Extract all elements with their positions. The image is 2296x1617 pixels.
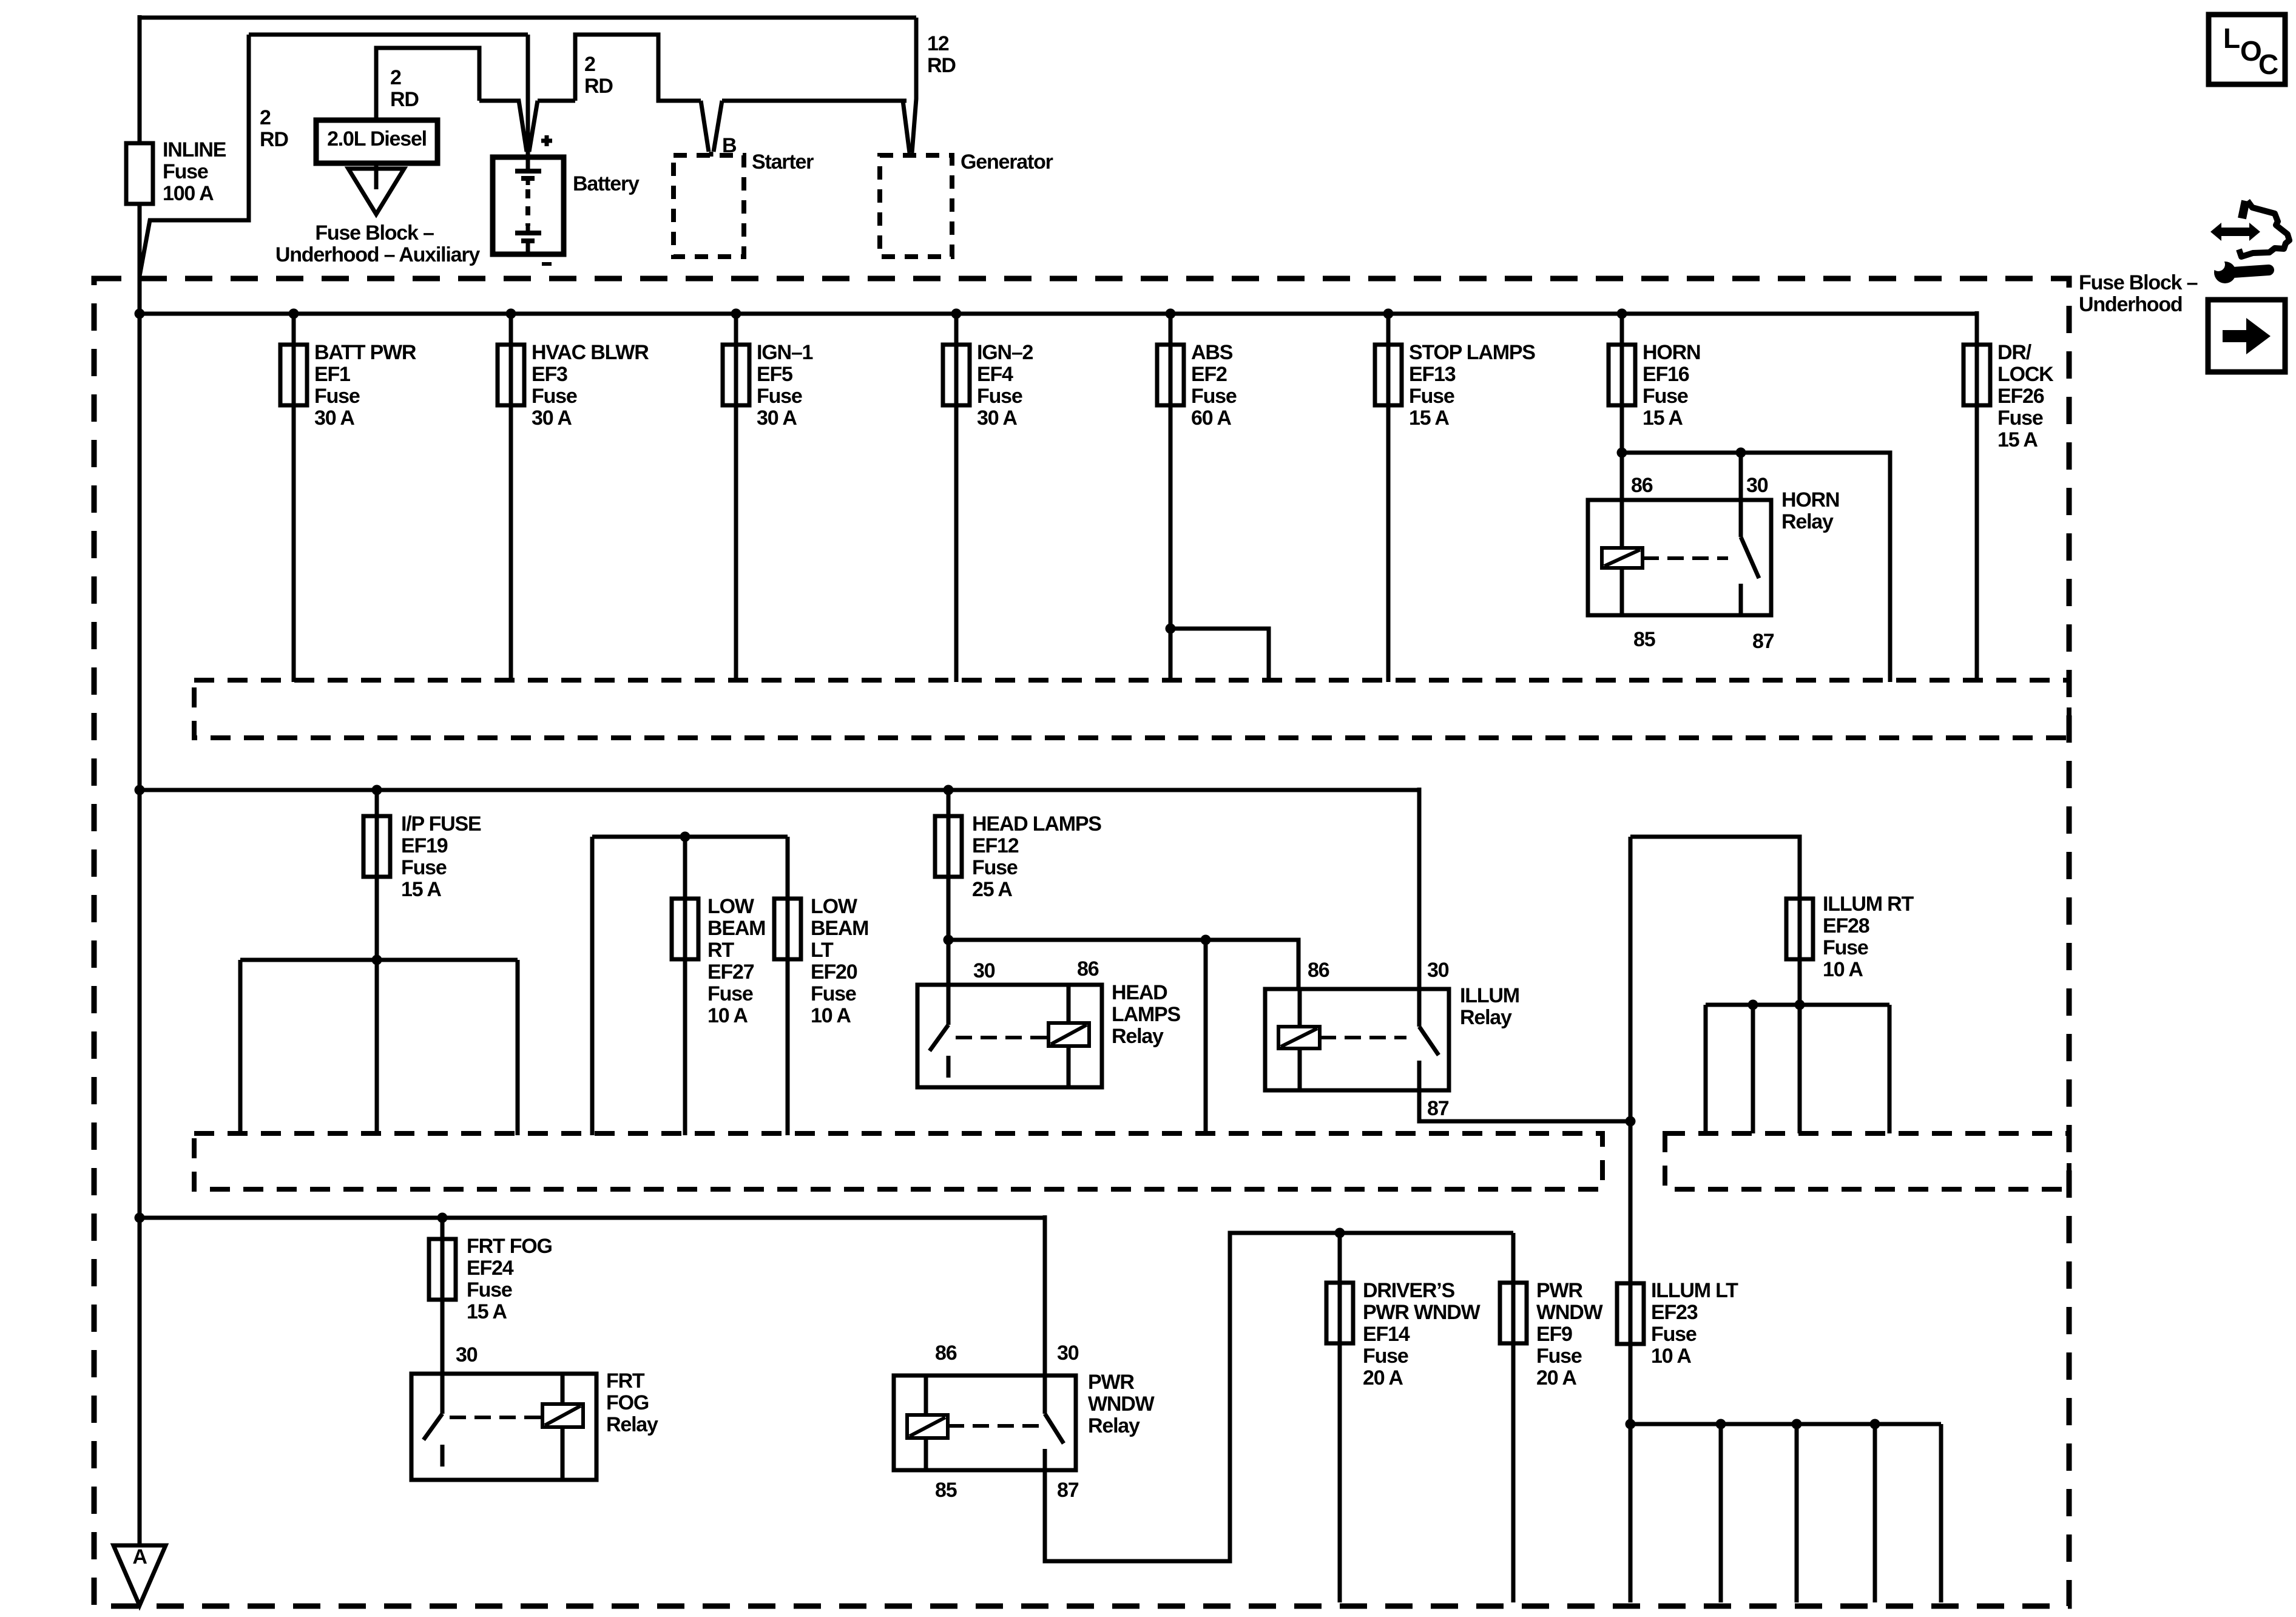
fuse EF5: [723, 345, 749, 405]
svg-text:30: 30: [456, 1343, 478, 1366]
svg-text:BEAM: BEAM: [707, 917, 765, 940]
wire: main feed from inline fuse, top bus: [140, 16, 916, 20]
wire: 2 RD elbow feed to battery branch: [140, 35, 249, 276]
wire: header drop to connector: [1204, 940, 1208, 1133]
junction: ABS branch: [1166, 624, 1176, 634]
svg-text:C: C: [2258, 49, 2278, 80]
wire: main vertical feed through inline fuse: [138, 15, 142, 143]
svg-text:Relay: Relay: [606, 1413, 658, 1436]
svg-text:30: 30: [1746, 474, 1768, 497]
junction: bus1 at EF5: [731, 309, 741, 319]
svg-text:2: 2: [260, 106, 271, 129]
junction: head lamps fuse output: [944, 935, 954, 945]
svg-text:Fuse: Fuse: [977, 385, 1022, 408]
wire: bus row 3: [140, 1216, 1045, 1220]
junction: bus2 left: [135, 785, 145, 795]
battery B1: [493, 157, 564, 254]
fuse block underhood auxiliary symbol (triangle I): [374, 163, 379, 169]
wire: illum LT fan drop 5: [1939, 1424, 1943, 1602]
junction: bus3 at EF24: [437, 1213, 448, 1223]
wire: LOW BEAM LT fuse drop: [786, 837, 790, 1135]
starter (dashed box): [674, 155, 744, 257]
svg-text:LOCK: LOCK: [1997, 363, 2054, 386]
junction: bus1 at EF13: [1383, 309, 1394, 319]
illum relay coil: [1298, 989, 1302, 1027]
fuse EF2 (ABS): [1157, 345, 1184, 405]
svg-text:Underhood: Underhood: [2079, 293, 2183, 316]
head lamps relay link (dashed): [956, 1036, 1048, 1039]
fuse EF13 (STOP LAMPS): [1375, 345, 1402, 405]
svg-text:HEAD: HEAD: [1112, 981, 1167, 1004]
junction: illum LT fan c: [1870, 1419, 1880, 1430]
wire: illum RT fan drop 1: [1704, 1005, 1708, 1133]
relay K-FRTFOG box: [411, 1374, 596, 1480]
svg-text:EF20: EF20: [811, 960, 857, 984]
svg-text:86: 86: [1308, 959, 1329, 982]
junction: illum LT fan left: [1626, 1419, 1636, 1430]
wire: second feed continues to starter: [575, 35, 701, 101]
svg-text:EF13: EF13: [1409, 363, 1456, 386]
wire: illum RT fan drop 4: [1888, 1005, 1892, 1133]
wire: EF1 fuse drop: [292, 314, 296, 682]
wire: second feed line to battery: [249, 33, 528, 37]
svg-text:RD: RD: [584, 75, 613, 98]
svg-text:15 A: 15 A: [1997, 428, 2038, 451]
svg-text:Fuse Block –: Fuse Block –: [2079, 271, 2198, 294]
svg-text:LAMPS: LAMPS: [1112, 1003, 1181, 1026]
frt fog relay coil: [561, 1374, 565, 1404]
svg-text:IGN–1: IGN–1: [757, 341, 813, 364]
svg-text:L: L: [2223, 22, 2240, 54]
horn relay switch: [1741, 500, 1759, 615]
horn relay link (dashed): [1643, 556, 1728, 560]
navigation arrow box: [2208, 300, 2285, 372]
svg-text:EF9: EF9: [1536, 1323, 1572, 1346]
wire: HORN fuse drop: [1620, 314, 1624, 453]
svg-text:Fuse: Fuse: [707, 982, 753, 1005]
svg-text:Fuse: Fuse: [1997, 407, 2043, 430]
svg-text:15 A: 15 A: [401, 878, 441, 901]
svg-text:DR/: DR/: [1997, 341, 2032, 364]
svg-text:Fuse: Fuse: [1363, 1345, 1408, 1368]
wire: low beam drop left: [590, 837, 595, 1135]
svg-text:Starter: Starter: [752, 150, 814, 174]
label: + battery positive: [541, 135, 552, 146]
svg-text:Fuse: Fuse: [401, 856, 447, 879]
svg-text:2.0L Diesel: 2.0L Diesel: [327, 127, 427, 150]
svg-text:86: 86: [1631, 474, 1653, 497]
svg-text:Generator: Generator: [961, 150, 1053, 174]
fuse EF24 (FRT FOG): [429, 1239, 456, 1300]
fuse EF3: [498, 345, 524, 405]
label: - battery negative: [542, 262, 552, 266]
wire: HEAD LAMPS fuse drop: [947, 790, 951, 985]
svg-text:PWR: PWR: [1536, 1279, 1582, 1302]
svg-text:LT: LT: [811, 939, 834, 962]
svg-text:EF1: EF1: [314, 363, 350, 386]
svg-text:12: 12: [927, 32, 949, 55]
fuse block - underhood (dashed border): [94, 279, 2069, 1606]
svg-text:15 A: 15 A: [1409, 407, 1449, 430]
fuse EF19 (I/P FUSE): [363, 816, 390, 877]
illum relay link (dashed): [1320, 1036, 1406, 1039]
relay K-PWRWNDW box: [894, 1376, 1076, 1470]
wire: horn relay pin 86: [1620, 453, 1624, 502]
svg-text:EF14: EF14: [1363, 1323, 1410, 1346]
relay K-ILLUM box: [1265, 989, 1449, 1090]
svg-text:RD: RD: [927, 54, 956, 77]
svg-text:30: 30: [1057, 1342, 1079, 1365]
junction: I/P fuse output: [372, 955, 382, 965]
svg-text:Fuse: Fuse: [1536, 1345, 1582, 1368]
svg-text:EF5: EF5: [757, 363, 792, 386]
pwr wndw relay link (dashed): [948, 1424, 1039, 1428]
svg-text:HORN: HORN: [1781, 488, 1839, 511]
svg-text:STOP LAMPS: STOP LAMPS: [1409, 341, 1535, 364]
inline fuse F1 100A: [126, 143, 153, 204]
svg-text:Fuse: Fuse: [163, 160, 208, 183]
svg-text:PWR WNDW: PWR WNDW: [1363, 1301, 1481, 1324]
svg-text:RD: RD: [260, 128, 288, 151]
svg-text:I/P FUSE: I/P FUSE: [401, 812, 481, 836]
wire: PWR WNDW fuse drop: [1511, 1233, 1516, 1602]
svg-text:WNDW: WNDW: [1088, 1393, 1155, 1416]
svg-text:HEAD LAMPS: HEAD LAMPS: [972, 812, 1101, 836]
svg-text:15 A: 15 A: [1643, 407, 1683, 430]
svg-text:Relay: Relay: [1781, 510, 1834, 533]
junction: bus3 left: [135, 1213, 145, 1223]
fuse EF26 (DR/LOCK): [1963, 345, 1990, 405]
junction: illum RT fan b: [1795, 1000, 1805, 1010]
svg-text:Fuse: Fuse: [1651, 1323, 1697, 1346]
junction: horn relay pin 30 tap: [1736, 448, 1746, 458]
wire: left trunk to ground: [138, 1218, 142, 1545]
wire: EF4 fuse drop: [954, 314, 959, 682]
wire: horn relay pin 30: [1739, 453, 1743, 502]
svg-text:Relay: Relay: [1112, 1025, 1164, 1048]
svg-text:LOW: LOW: [707, 895, 755, 918]
splice V into battery positive: [479, 101, 575, 152]
svg-text:87: 87: [1427, 1097, 1449, 1120]
svg-text:10 A: 10 A: [707, 1004, 748, 1027]
svg-text:IGN–2: IGN–2: [977, 341, 1033, 364]
svg-text:10 A: 10 A: [1823, 958, 1863, 981]
svg-text:87: 87: [1752, 630, 1774, 653]
svg-text:FOG: FOG: [606, 1391, 649, 1414]
svg-text:Underhood – Auxiliary: Underhood – Auxiliary: [275, 243, 481, 266]
svg-text:30 A: 30 A: [977, 407, 1017, 430]
connector row 2 left (dashed): [194, 1133, 1602, 1189]
junction: bus2 at EF19: [372, 785, 382, 795]
wire: FRT FOG fuse drop: [441, 1218, 445, 1376]
relay K-HORN box: [1588, 500, 1771, 615]
svg-text:Fuse: Fuse: [811, 982, 856, 1005]
svg-text:86: 86: [935, 1342, 957, 1365]
svg-text:85: 85: [935, 1479, 957, 1502]
svg-text:Fuse Block –: Fuse Block –: [315, 221, 434, 245]
svg-text:ILLUM: ILLUM: [1460, 984, 1519, 1007]
svg-text:Relay: Relay: [1088, 1414, 1140, 1437]
junction: head lamps header drop: [1201, 935, 1211, 945]
junction: pwr wndw fuses tap: [1335, 1228, 1345, 1238]
wire: inline fuse output down to fuse block: [138, 204, 142, 316]
svg-text:30 A: 30 A: [757, 407, 797, 430]
svg-text:20 A: 20 A: [1363, 1366, 1403, 1389]
wire: horn fuse output to relay 30 and connector: [1622, 453, 1890, 682]
svg-text:Fuse: Fuse: [757, 385, 802, 408]
wire: bus row 2: [140, 788, 1419, 792]
fuse EF27 (LOW BEAM RT): [672, 899, 698, 959]
wire: EF5 fuse drop: [734, 314, 738, 682]
head lamps relay switch: [930, 985, 948, 1078]
fuse EF28 (ILLUM RT): [1786, 899, 1813, 959]
svg-text:10 A: 10 A: [811, 1004, 851, 1027]
svg-text:EF27: EF27: [707, 960, 754, 984]
svg-text:Fuse: Fuse: [467, 1278, 512, 1301]
svg-text:EF24: EF24: [467, 1257, 514, 1280]
wire: illum RT fan: [1706, 1003, 1889, 1007]
illum relay switch: [1419, 989, 1439, 1090]
frt fog relay link (dashed): [450, 1416, 542, 1419]
svg-text:100 A: 100 A: [163, 182, 214, 205]
wire: DRIVER'S PWR WNDW fuse drop: [1338, 1233, 1342, 1602]
wire: generator drop from top bus: [912, 18, 916, 153]
fuse EF1: [280, 345, 307, 405]
junction: low beam RT tap: [680, 832, 690, 842]
connector row 1 (dashed): [194, 680, 2069, 738]
junction: illum LT fan b: [1792, 1419, 1802, 1430]
svg-text:Fuse: Fuse: [314, 385, 360, 408]
wire: head lamps output header: [948, 940, 1298, 991]
wire: EF3 fuse drop: [509, 314, 513, 682]
svg-text:ABS: ABS: [1191, 341, 1233, 364]
fuse EF4: [943, 345, 970, 405]
svg-text:A: A: [132, 1545, 147, 1568]
wire: I/P fan drop right: [516, 960, 520, 1135]
LOC reference box: [2209, 15, 2285, 84]
wire: I/P output fan: [240, 958, 518, 962]
splice into generator: [903, 101, 911, 157]
junction: illum RT fan a: [1748, 1000, 1758, 1010]
fuse EF12 (HEAD LAMPS): [935, 816, 962, 877]
wire: low beam header: [592, 835, 788, 839]
svg-text:FRT FOG: FRT FOG: [467, 1235, 552, 1258]
svg-text:Fuse: Fuse: [1409, 385, 1454, 408]
junction: bus2 at EF12: [944, 785, 954, 795]
svg-text:15 A: 15 A: [467, 1300, 507, 1323]
svg-text:30: 30: [973, 959, 995, 982]
relay K-HEADLAMPS box: [917, 985, 1102, 1087]
svg-text:RT: RT: [707, 939, 734, 962]
junction: horn fuse output: [1617, 448, 1627, 458]
junction: illum trunk at relay output: [1626, 1116, 1636, 1127]
wire: 2.0L diesel feed: [376, 48, 479, 120]
svg-text:30: 30: [1427, 959, 1449, 982]
wire: I/P fuse drop: [375, 790, 379, 960]
svg-text:ILLUM RT: ILLUM RT: [1823, 893, 1914, 916]
junction: bus1 at EF4: [951, 309, 962, 319]
wire: left trunk row1 to row2: [138, 314, 142, 790]
fuse EF16 (HORN): [1609, 345, 1635, 405]
svg-text:PWR: PWR: [1088, 1371, 1134, 1394]
wire: I/P fan drop center: [375, 960, 379, 1135]
svg-text:30 A: 30 A: [314, 407, 354, 430]
wire: illum trunk vertical: [1629, 837, 1633, 1424]
svg-text:2: 2: [390, 66, 401, 89]
svg-text:Battery: Battery: [573, 172, 640, 195]
wire: illum LT fan: [1630, 1422, 1941, 1426]
svg-text:EF2: EF2: [1191, 363, 1227, 386]
svg-text:20 A: 20 A: [1536, 1366, 1576, 1389]
junction: bus1 at EF3: [506, 309, 516, 319]
svg-text:ILLUM LT: ILLUM LT: [1651, 1279, 1738, 1302]
wire: illum RT feed elbow: [1630, 837, 1800, 1005]
wire: DR/LOCK fuse drop from bus1 end: [1975, 311, 1979, 682]
icon: underhood location (double arrow, hood outline, wrench): [2210, 223, 2260, 241]
svg-text:HORN: HORN: [1643, 341, 1700, 364]
pwr wndw relay coil: [924, 1376, 928, 1415]
svg-text:Fuse: Fuse: [532, 385, 577, 408]
svg-text:HVAC BLWR: HVAC BLWR: [532, 341, 649, 364]
head lamps relay coil: [1067, 985, 1071, 1023]
ground symbol A: [113, 1545, 166, 1605]
splice V into starter terminal B: [701, 101, 722, 157]
wire: illum LT fan drop 4: [1873, 1424, 1877, 1602]
frt fog relay switch: [424, 1374, 442, 1467]
svg-text:EF16: EF16: [1643, 363, 1689, 386]
wire: illum LT fan drop 3: [1795, 1424, 1799, 1602]
generator (dashed box): [880, 155, 952, 257]
battery internal plates: [526, 159, 530, 170]
svg-text:10 A: 10 A: [1651, 1345, 1691, 1368]
svg-text:EF4: EF4: [977, 363, 1013, 386]
wire: pwr wndw relay 87 loop: [1045, 1233, 1513, 1561]
wire: ABS branch to connector: [1170, 629, 1269, 682]
fuse EF20 (LOW BEAM LT): [774, 899, 801, 959]
wire: feed continues to generator: [722, 99, 907, 103]
svg-text:87: 87: [1057, 1479, 1079, 1502]
svg-text:EF23: EF23: [1651, 1301, 1698, 1324]
svg-text:EF3: EF3: [532, 363, 567, 386]
svg-text:DRIVER’S: DRIVER’S: [1363, 1279, 1455, 1302]
svg-text:BEAM: BEAM: [811, 917, 868, 940]
wire: PWR WNDW relay 30 feed from bus3 end: [1043, 1215, 1047, 1376]
svg-text:FRT: FRT: [606, 1369, 645, 1393]
svg-text:Relay: Relay: [1460, 1006, 1512, 1029]
svg-text:85: 85: [1633, 628, 1655, 651]
wire: LOW BEAM RT fuse drop: [683, 837, 687, 1135]
wire: battery drop from second line: [526, 35, 530, 153]
svg-text:LOW: LOW: [811, 895, 858, 918]
wire: illum relay 87 output: [1419, 1090, 1630, 1121]
fuse EF9 (PWR WNDW): [1500, 1283, 1527, 1343]
wire: I/P fan drop left: [238, 960, 243, 1135]
junction: bus1 at EF16: [1617, 309, 1627, 319]
svg-text:WNDW: WNDW: [1536, 1301, 1604, 1324]
svg-text:EF28: EF28: [1823, 914, 1869, 937]
fuse EF14 (DRIVER'S PWR WNDW): [1326, 1283, 1353, 1343]
svg-text:Fuse: Fuse: [1191, 385, 1237, 408]
wire: ABS fuse drop: [1169, 314, 1173, 682]
svg-text:Fuse: Fuse: [972, 856, 1018, 879]
svg-text:EF12: EF12: [972, 834, 1019, 857]
junction: illum LT fan a: [1716, 1419, 1726, 1430]
svg-text:Fuse: Fuse: [1643, 385, 1688, 408]
svg-text:INLINE: INLINE: [163, 138, 226, 161]
svg-text:30 A: 30 A: [532, 407, 572, 430]
icon: right arrow: [2223, 318, 2271, 354]
svg-text:EF19: EF19: [401, 834, 448, 857]
pwr wndw relay switch: [1045, 1376, 1064, 1470]
wire: bus row 1: [140, 312, 1977, 316]
connector row 2 right (dashed): [1665, 1133, 2069, 1189]
wire: STOP LAMPS fuse drop: [1386, 314, 1391, 682]
svg-text:BATT PWR: BATT PWR: [314, 341, 416, 364]
junction: bus1 at EF2: [1166, 309, 1176, 319]
wire: illum LT fan drop 1: [1629, 1424, 1633, 1602]
wire: illum RT fan drop 3: [1798, 1005, 1802, 1133]
junction: bus1 left: [135, 309, 145, 319]
svg-text:RD: RD: [390, 88, 419, 111]
fuse EF23 (ILLUM LT): [1617, 1283, 1644, 1344]
wire: illum RT fan drop 2: [1751, 1005, 1755, 1133]
svg-text:Fuse: Fuse: [1823, 936, 1868, 959]
wire: left trunk row2 to row3: [138, 790, 142, 1218]
svg-text:25 A: 25 A: [972, 878, 1012, 901]
horn relay coil: [1620, 500, 1624, 548]
svg-text:60 A: 60 A: [1191, 407, 1231, 430]
svg-text:EF26: EF26: [1997, 385, 2044, 408]
wire: illum LT fan drop 2: [1719, 1424, 1723, 1602]
wire: ILLUM relay 30 feed from bus2 end: [1417, 788, 1422, 991]
svg-text:2: 2: [584, 53, 595, 76]
junction: bus1 at EF1: [289, 309, 299, 319]
component box: 2.0L Diesel: [316, 120, 437, 163]
svg-text:86: 86: [1077, 957, 1099, 981]
